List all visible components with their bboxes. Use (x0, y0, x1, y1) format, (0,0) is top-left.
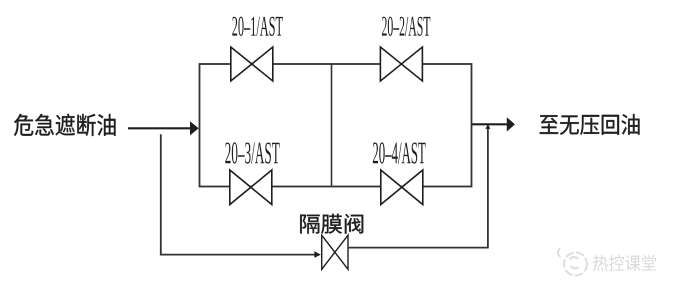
valve 20-4/AST (381, 170, 423, 205)
wire: parallel-block outline (pipes) (200, 64, 472, 187)
valve 20-2/AST (380, 47, 422, 81)
label 20-1/AST (232, 17, 282, 36)
wire: left branch down to diaphragm valve line (160, 134, 162, 254)
label 20-4/AST (373, 142, 426, 163)
valve 20-1/AST (231, 47, 273, 81)
wire: right riser up with small arrow (487, 129, 489, 248)
label 20-2/AST (382, 17, 430, 36)
valve 隔膜阀 label (300, 214, 363, 234)
label 20-3/AST (225, 142, 279, 163)
watermark text 热控课堂 (593, 255, 656, 271)
wire: diaphragm valve outlet to right riser (348, 247, 489, 249)
valve: diaphragm valve symbol (322, 235, 348, 269)
wire: middle vertical between valve pairs (331, 64, 333, 187)
wire: inlet line with arrow (128, 127, 191, 129)
node: 至无压回油 (to unpressurized oil return) label (540, 114, 640, 135)
node: 危急遮断油 (emergency trip oil) label (14, 114, 116, 136)
valve 20-3/AST (230, 170, 272, 205)
watermark logo (558, 249, 587, 276)
wire: bottom line to diaphragm valve with arrow (160, 254, 315, 256)
wire: outlet line with arrow (472, 123, 508, 125)
